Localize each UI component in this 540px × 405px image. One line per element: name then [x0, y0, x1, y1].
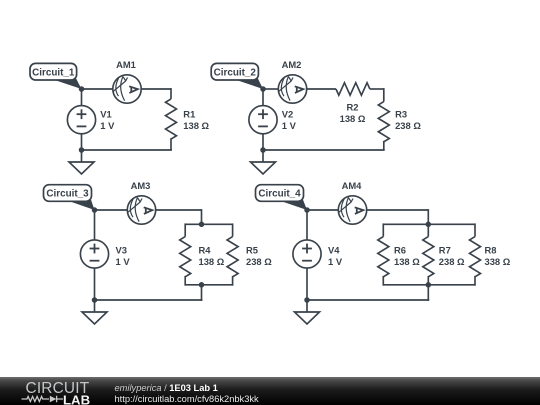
junction — [79, 147, 85, 153]
svg-text:1 V: 1 V — [100, 120, 115, 131]
ammeter AM1 — [113, 75, 141, 103]
svg-text:238 Ω: 238 Ω — [395, 120, 421, 131]
wire — [427, 285, 429, 301]
svg-text:AM4: AM4 — [342, 180, 363, 191]
svg-text:R2: R2 — [347, 102, 359, 113]
svg-text:Circuit_1: Circuit_1 — [32, 67, 75, 78]
svg-text:R1: R1 — [183, 109, 195, 120]
svg-text:138 Ω: 138 Ω — [183, 120, 209, 131]
junction — [199, 282, 205, 288]
wire — [370, 88, 384, 90]
svg-text:R5: R5 — [246, 245, 258, 256]
svg-text:R4: R4 — [199, 245, 212, 256]
wire — [263, 88, 279, 90]
svg-text:http://circuitlab.com/cfv86k2n: http://circuitlab.com/cfv86k2nbk3kk — [115, 394, 260, 404]
node Circuit_2 — [211, 63, 263, 89]
footer bar — [0, 377, 540, 405]
ammeter AM2 — [278, 75, 306, 103]
junction — [304, 207, 310, 213]
wire — [201, 209, 203, 224]
junction — [260, 86, 266, 92]
svg-text:R3: R3 — [395, 109, 407, 120]
resistor R5 — [232, 223, 234, 236]
resistor R2 — [336, 83, 370, 96]
wire — [170, 138, 172, 150]
logo squiggle — [22, 396, 64, 403]
wire — [94, 300, 96, 313]
voltage source V3 — [94, 210, 96, 240]
svg-text:138 Ω: 138 Ω — [394, 256, 420, 267]
junction — [426, 222, 432, 228]
voltage source V2 — [262, 89, 264, 106]
wire — [155, 209, 201, 211]
voltage source V1 — [81, 89, 83, 106]
svg-text:emilyperica / 1E03 Lab 1: emilyperica / 1E03 Lab 1 — [115, 383, 218, 393]
resistor R4 — [184, 223, 186, 236]
wire — [262, 150, 264, 163]
svg-text:Circuit_3: Circuit_3 — [46, 189, 89, 200]
wire — [383, 284, 475, 286]
ground — [295, 312, 320, 324]
svg-text:138 Ω: 138 Ω — [340, 113, 366, 124]
wire — [95, 209, 128, 211]
node Circuit_1 — [30, 63, 82, 89]
svg-text:V2: V2 — [282, 109, 293, 120]
svg-text:Circuit_4: Circuit_4 — [258, 189, 301, 200]
wire — [170, 88, 172, 99]
svg-text:AM2: AM2 — [282, 59, 302, 70]
wire — [201, 285, 203, 301]
svg-text:Circuit_2: Circuit_2 — [214, 67, 257, 78]
junction — [92, 207, 98, 213]
wire — [383, 141, 385, 150]
wire — [263, 149, 385, 151]
junction — [426, 282, 432, 288]
svg-text:V3: V3 — [116, 245, 127, 256]
wire — [141, 88, 171, 90]
junction — [199, 222, 205, 228]
ground — [69, 162, 94, 174]
node Circuit_3 — [44, 185, 95, 210]
wire — [82, 88, 114, 90]
svg-text:R8: R8 — [485, 245, 497, 256]
svg-text:V4: V4 — [328, 245, 340, 256]
junction — [304, 297, 310, 303]
wire — [307, 299, 429, 301]
wire — [95, 299, 203, 301]
wire — [185, 223, 232, 225]
resistor R3 — [378, 102, 389, 142]
wire — [383, 88, 385, 102]
resistor R6 — [382, 223, 384, 236]
svg-text:138 Ω: 138 Ω — [199, 256, 225, 267]
wire — [306, 300, 308, 313]
svg-text:R6: R6 — [394, 245, 406, 256]
svg-text:R7: R7 — [439, 245, 451, 256]
wire — [383, 223, 475, 225]
resistor R1 — [166, 99, 177, 139]
resistor R7 — [427, 223, 429, 236]
svg-text:1 V: 1 V — [282, 120, 297, 131]
junction — [79, 86, 85, 92]
wire — [427, 209, 429, 224]
node Circuit_4 — [256, 185, 308, 210]
svg-text:V1: V1 — [100, 109, 111, 120]
resistor R8 — [474, 223, 476, 236]
voltage source V4 — [306, 210, 308, 240]
junction — [260, 147, 266, 153]
ammeter AM3 — [127, 196, 155, 224]
svg-text:338 Ω: 338 Ω — [485, 256, 511, 267]
svg-text:238 Ω: 238 Ω — [439, 256, 465, 267]
ground — [251, 162, 276, 174]
wire — [81, 150, 83, 163]
junction — [92, 297, 98, 303]
svg-text:AM3: AM3 — [131, 180, 151, 191]
svg-text:AM1: AM1 — [116, 59, 136, 70]
svg-text:1 V: 1 V — [328, 256, 343, 267]
svg-text:238 Ω: 238 Ω — [246, 256, 272, 267]
svg-text:LAB: LAB — [63, 393, 90, 405]
wire — [366, 209, 428, 211]
wire — [306, 88, 336, 90]
wire — [307, 209, 339, 211]
svg-text:1 V: 1 V — [116, 256, 131, 267]
wire — [185, 284, 232, 286]
ground — [82, 312, 107, 324]
ammeter AM4 — [338, 196, 366, 224]
wire — [82, 149, 172, 151]
